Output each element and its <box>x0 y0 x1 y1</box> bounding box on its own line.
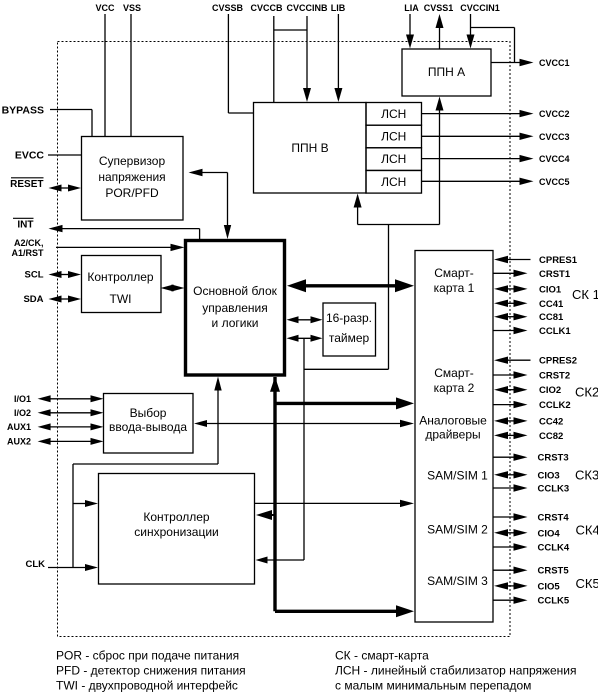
svg-text:LIA: LIA <box>404 3 419 13</box>
svg-text:ЛСН: ЛСН <box>381 130 406 144</box>
svg-text:CIO2: CIO2 <box>539 385 561 396</box>
svg-text:Основной блок: Основной блок <box>193 284 277 298</box>
svg-text:CC82: CC82 <box>539 431 563 442</box>
svg-text:A2/CK,: A2/CK, <box>14 238 44 248</box>
svg-text:POR - сброс при подаче питания: POR - сброс при подаче питания <box>56 649 239 663</box>
svg-text:BYPASS: BYPASS <box>2 105 44 117</box>
svg-text:Супервизор: Супервизор <box>99 154 166 168</box>
svg-text:Аналоговые: Аналоговые <box>419 414 487 428</box>
svg-text:CCLK2: CCLK2 <box>539 400 571 411</box>
svg-text:RESET: RESET <box>10 179 43 190</box>
svg-text:CCLK1: CCLK1 <box>539 326 571 337</box>
svg-text:драйверы: драйверы <box>425 428 480 442</box>
svg-text:TWI - двухпроводной интерфейс: TWI - двухпроводной интерфейс <box>56 679 238 693</box>
svg-text:Смарт-: Смарт- <box>434 366 474 380</box>
svg-text:CC41: CC41 <box>539 299 564 310</box>
svg-text:I/O1: I/O1 <box>14 394 31 404</box>
svg-text:и логики: и логики <box>212 316 259 330</box>
svg-text:CC81: CC81 <box>539 312 564 323</box>
svg-text:карта 2: карта 2 <box>434 381 475 395</box>
svg-text:СК5: СК5 <box>576 576 598 591</box>
svg-text:CIO1: CIO1 <box>539 284 562 295</box>
svg-text:СК3: СК3 <box>575 468 598 483</box>
svg-text:EVCC: EVCC <box>15 150 45 162</box>
svg-text:CVCCIN1: CVCCIN1 <box>460 3 500 13</box>
svg-text:AUX2: AUX2 <box>7 437 31 447</box>
svg-text:ввода-вывода: ввода-вывода <box>109 420 187 434</box>
svg-text:CRST4: CRST4 <box>538 513 570 524</box>
svg-text:CVCC4: CVCC4 <box>539 154 570 164</box>
svg-text:CVCC2: CVCC2 <box>539 109 570 119</box>
svg-text:POR/PFD: POR/PFD <box>105 186 159 200</box>
svg-text:INT: INT <box>17 220 33 231</box>
svg-text:CCLK5: CCLK5 <box>538 596 570 607</box>
svg-text:A1/RST: A1/RST <box>11 248 44 258</box>
svg-text:СК2: СК2 <box>575 385 598 400</box>
svg-text:CRST2: CRST2 <box>539 371 570 382</box>
svg-text:CVSS1: CVSS1 <box>424 3 454 13</box>
svg-text:Выбор: Выбор <box>130 406 167 420</box>
svg-text:SCL: SCL <box>25 270 44 281</box>
svg-text:Контроллер: Контроллер <box>143 510 210 524</box>
svg-text:напряжения: напряжения <box>98 170 165 184</box>
svg-text:I/O2: I/O2 <box>14 408 31 418</box>
svg-text:с малым минимальным перепадом: с малым минимальным перепадом <box>335 679 531 693</box>
svg-text:CLK: CLK <box>25 559 45 570</box>
svg-text:CRST5: CRST5 <box>538 566 570 577</box>
svg-text:ЛСН - линейный стабилизатор на: ЛСН - линейный стабилизатор напряжения <box>335 664 577 678</box>
svg-text:VSS: VSS <box>123 3 141 13</box>
svg-text:LIB: LIB <box>331 3 346 13</box>
svg-text:16-разр.: 16-разр. <box>326 311 372 325</box>
svg-text:SDA: SDA <box>23 294 43 305</box>
svg-text:CPRES1: CPRES1 <box>539 255 578 266</box>
svg-text:AUX1: AUX1 <box>7 422 31 432</box>
svg-text:TWI: TWI <box>110 292 132 306</box>
svg-text:ЛСН: ЛСН <box>381 175 406 189</box>
svg-text:CVCC3: CVCC3 <box>539 132 570 142</box>
svg-text:ЛСН: ЛСН <box>381 107 406 121</box>
svg-text:CIO5: CIO5 <box>538 581 561 592</box>
svg-text:ППН A: ППН A <box>428 65 465 79</box>
svg-text:Контроллер: Контроллер <box>87 270 154 284</box>
svg-text:CCLK3: CCLK3 <box>538 484 570 495</box>
svg-text:CVSSB: CVSSB <box>212 3 244 13</box>
svg-text:SAM/SIM 3: SAM/SIM 3 <box>427 574 488 588</box>
svg-text:ЛСН: ЛСН <box>381 152 406 166</box>
svg-text:CIO4: CIO4 <box>538 528 561 539</box>
svg-text:CPRES2: CPRES2 <box>539 356 577 367</box>
svg-text:PFD - детектор снижения питани: PFD - детектор снижения питания <box>56 664 246 678</box>
svg-text:CC42: CC42 <box>539 416 563 427</box>
svg-text:CRST3: CRST3 <box>538 453 569 464</box>
svg-text:СК4: СК4 <box>576 523 598 538</box>
svg-text:ППН B: ППН B <box>291 141 328 155</box>
svg-text:SAM/SIM 2: SAM/SIM 2 <box>427 523 488 537</box>
svg-text:CRST1: CRST1 <box>539 269 571 280</box>
svg-text:SAM/SIM 1: SAM/SIM 1 <box>427 469 488 483</box>
svg-text:CVCCINB: CVCCINB <box>286 3 328 13</box>
svg-text:СК 1: СК 1 <box>572 287 598 302</box>
svg-text:СК - смарт-карта: СК - смарт-карта <box>335 649 429 663</box>
svg-text:CCLK4: CCLK4 <box>538 543 570 554</box>
svg-text:Смарт-: Смарт- <box>434 266 474 280</box>
svg-text:CVCC1: CVCC1 <box>539 58 570 68</box>
svg-text:CVCCB: CVCCB <box>250 3 283 13</box>
svg-text:CVCC5: CVCC5 <box>539 177 570 187</box>
svg-text:VCC: VCC <box>95 3 115 13</box>
svg-text:таймер: таймер <box>329 331 370 345</box>
svg-text:CIO3: CIO3 <box>538 470 560 481</box>
svg-text:синхронизации: синхронизации <box>134 525 218 539</box>
svg-text:карта 1: карта 1 <box>434 281 475 295</box>
svg-text:управления: управления <box>202 301 267 315</box>
